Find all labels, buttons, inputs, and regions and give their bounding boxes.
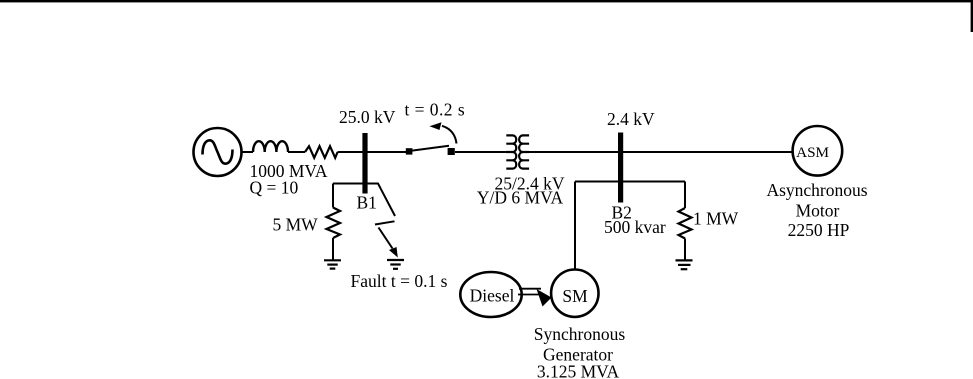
svg-text:5 MW: 5 MW — [273, 214, 319, 234]
svg-text:2.4 kV: 2.4 kV — [607, 109, 655, 129]
svg-text:Y/D 6 MVA: Y/D 6 MVA — [477, 188, 564, 208]
svg-text:Diesel: Diesel — [470, 286, 515, 306]
svg-text:500 kvar: 500 kvar — [604, 217, 666, 237]
svg-text:Fault t = 0.1 s: Fault t = 0.1 s — [351, 271, 448, 291]
svg-text:SM: SM — [562, 286, 588, 306]
svg-text:B1: B1 — [357, 193, 377, 213]
svg-text:1 MW: 1 MW — [693, 209, 739, 229]
svg-text:Asynchronous: Asynchronous — [766, 180, 867, 200]
svg-text:Motor: Motor — [796, 200, 840, 220]
svg-text:3.125 MVA: 3.125 MVA — [537, 362, 620, 379]
svg-text:Synchronous: Synchronous — [534, 324, 626, 344]
svg-text:25.0 kV: 25.0 kV — [339, 107, 396, 127]
svg-text:Q = 10: Q = 10 — [250, 178, 299, 198]
svg-text:2250 HP: 2250 HP — [788, 220, 850, 240]
svg-text:t = 0.2 s: t = 0.2 s — [405, 100, 466, 120]
svg-text:ASM: ASM — [796, 144, 829, 161]
